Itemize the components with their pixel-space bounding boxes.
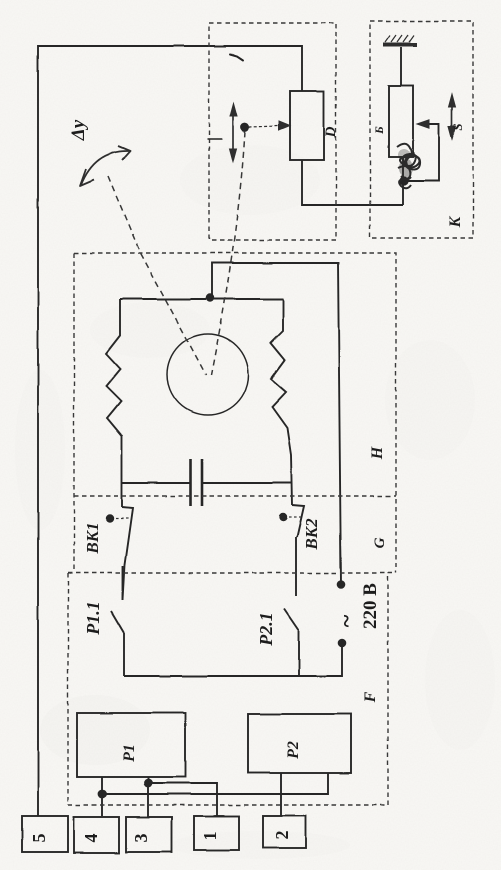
- svg-text:BK1: BK1: [83, 522, 102, 554]
- svg-text:G: G: [372, 537, 388, 548]
- svg-text:K: K: [447, 215, 464, 228]
- svg-text:220 В: 220 В: [360, 583, 381, 629]
- svg-text:D: D: [323, 126, 339, 138]
- svg-text:P1.1: P1.1: [83, 601, 103, 636]
- svg-text:5: 5: [29, 834, 49, 843]
- svg-text:4: 4: [81, 834, 101, 843]
- svg-text:Б: Б: [372, 126, 386, 135]
- svg-text:S: S: [450, 123, 465, 130]
- svg-text:H: H: [369, 446, 386, 460]
- svg-text:3: 3: [131, 834, 151, 843]
- svg-text:~: ~: [334, 614, 360, 627]
- svg-text:Δy: Δy: [68, 119, 89, 141]
- svg-text:P2: P2: [285, 741, 302, 760]
- svg-text:F: F: [362, 691, 379, 703]
- svg-text:P2.1: P2.1: [256, 612, 276, 647]
- svg-text:BK2: BK2: [302, 518, 321, 551]
